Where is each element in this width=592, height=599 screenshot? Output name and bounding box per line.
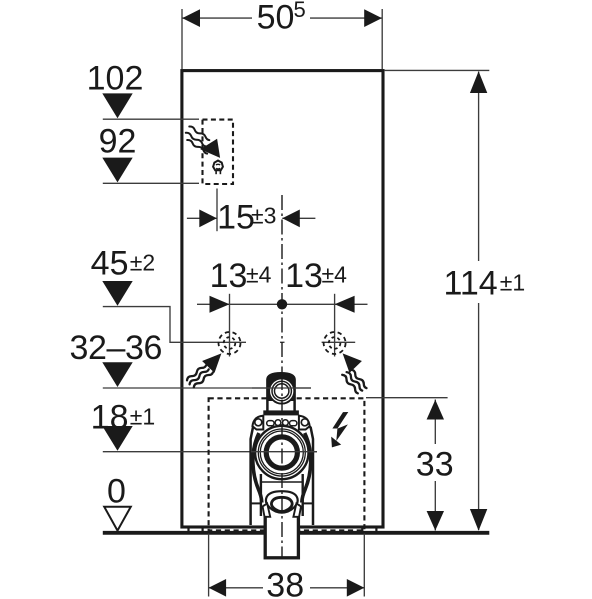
svg-text:±3: ±3 xyxy=(251,202,276,228)
level 45 line segment through right hole xyxy=(322,341,356,343)
svg-text:13: 13 xyxy=(210,257,248,295)
dim 33 line lower xyxy=(434,481,436,531)
dim 13 arrow right xyxy=(335,296,355,313)
dim 38 line right xyxy=(310,587,364,589)
svg-text:±4: ±4 xyxy=(246,262,272,288)
outlet tab right xyxy=(293,504,301,517)
svg-text:32–36: 32–36 xyxy=(70,329,163,367)
svg-text:13: 13 xyxy=(285,257,323,295)
tick line left hole xyxy=(229,294,231,357)
trap bend band right xyxy=(302,433,311,503)
big ring mid1 xyxy=(258,429,305,476)
squiggle arrow right xyxy=(341,353,368,393)
level 45 center dash xyxy=(280,341,285,343)
collar slots xyxy=(267,421,274,426)
dim 50 line xyxy=(182,17,382,19)
dim 15±3 arrow left xyxy=(199,210,217,228)
neck black arch xyxy=(267,373,294,401)
svg-text:0: 0 xyxy=(107,472,126,510)
dim 13 line xyxy=(197,303,368,305)
level 32-36 marker triangle xyxy=(102,362,132,387)
dim 33 line upper xyxy=(434,400,436,445)
dim 50 arrow left xyxy=(182,9,200,27)
outlet seal gasket xyxy=(266,491,298,512)
dim 114 arrow down xyxy=(470,509,487,531)
label 50 with white backing xyxy=(252,0,310,31)
outlet tab left xyxy=(263,504,271,517)
big ring mid2 xyxy=(260,431,303,474)
assembly white base xyxy=(251,426,314,525)
dim 38 extension line right xyxy=(363,534,365,597)
dim 38 extension line left xyxy=(208,534,210,597)
level 18±1 marker triangle xyxy=(102,426,132,451)
svg-text:45: 45 xyxy=(91,244,129,282)
collar small circles xyxy=(275,420,281,426)
svg-text:15: 15 xyxy=(217,198,255,236)
svg-text:5: 5 xyxy=(294,0,306,22)
dim 114 extension line xyxy=(384,69,489,71)
dim 33 arrow up xyxy=(427,400,444,420)
odor filter icon xyxy=(213,161,223,175)
level 92 line xyxy=(103,182,199,184)
level 45±2 stepped leader line xyxy=(103,307,246,343)
dim 38 line left xyxy=(209,587,263,589)
center dot node xyxy=(277,299,287,309)
odor arrow xyxy=(200,139,220,158)
level 45±2 marker triangle xyxy=(102,281,132,306)
centerline upper xyxy=(281,195,283,375)
svg-text:±1: ±1 xyxy=(130,403,155,429)
level 92 marker triangle xyxy=(102,158,132,183)
odor box center tick xyxy=(216,189,218,232)
ear right xyxy=(299,416,310,430)
dim 50 arrow right xyxy=(364,9,382,27)
level 102 line xyxy=(103,118,199,120)
water hole left dashed circles xyxy=(219,332,241,354)
svg-text:92: 92 xyxy=(99,123,137,161)
tick line right hole xyxy=(334,294,336,357)
level 0 open triangle xyxy=(104,507,131,531)
dim 50 extension line right xyxy=(381,9,383,69)
dim 15±3 line right stub xyxy=(282,217,315,219)
big ring outer xyxy=(255,426,308,479)
svg-text:38: 38 xyxy=(266,567,304,599)
dim 15±3 arrow right xyxy=(282,210,300,228)
level 18±1 line over assembly xyxy=(251,451,317,453)
svg-text:50: 50 xyxy=(257,0,295,37)
floor line xyxy=(103,531,490,535)
svg-text:±1: ±1 xyxy=(500,269,525,295)
dim 38 arrow right xyxy=(347,579,365,597)
level 102 marker triangle xyxy=(102,93,132,118)
funnel chord xyxy=(261,481,303,483)
svg-text:114: 114 xyxy=(444,264,498,302)
outlet seal opening xyxy=(271,497,292,511)
neck xyxy=(267,373,294,413)
funnel inner wall right xyxy=(302,474,304,516)
dim 15±3 line left stub xyxy=(187,217,217,219)
dim 33 arrow down xyxy=(427,511,444,531)
big ring seat xyxy=(266,437,297,468)
dim 114 arrow up xyxy=(470,71,487,93)
panel outline xyxy=(182,71,383,527)
odor extraction dashed box xyxy=(203,120,234,184)
svg-text:±2: ±2 xyxy=(130,249,155,275)
level 18±1 line xyxy=(103,451,317,453)
level 32-36 line xyxy=(103,387,311,389)
water hole right dashed circles xyxy=(324,332,346,354)
dim 50 extension line left xyxy=(181,9,183,69)
centerline lower xyxy=(281,375,283,557)
lower dashed service box xyxy=(209,398,365,530)
neck circles xyxy=(269,378,294,403)
svg-text:±4: ±4 xyxy=(322,262,348,288)
flush valve assembly xyxy=(251,373,314,558)
squiggle arrow left xyxy=(186,353,221,388)
dim 13 arrow left xyxy=(210,296,230,313)
odor waves xyxy=(185,125,210,154)
dim 33 extension line xyxy=(366,397,448,399)
svg-text:102: 102 xyxy=(87,60,144,98)
collar xyxy=(263,410,299,415)
frame step left xyxy=(251,502,261,504)
ear left xyxy=(252,416,263,430)
dim 114 line upper xyxy=(478,72,480,262)
level 32-36 line over assembly xyxy=(252,387,311,389)
dim 114 line lower xyxy=(478,303,480,530)
frame step right xyxy=(303,502,313,504)
lightning bolt xyxy=(331,412,348,447)
panel feet xyxy=(187,528,377,531)
outlet pipe xyxy=(265,506,298,558)
dim 38 arrow left xyxy=(209,579,227,597)
svg-text:33: 33 xyxy=(416,446,454,484)
mount frame right xyxy=(299,415,313,525)
mount frame left xyxy=(251,415,264,525)
funnel inner wall left xyxy=(260,474,262,516)
trap bend band left xyxy=(253,433,262,503)
